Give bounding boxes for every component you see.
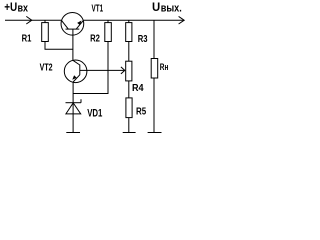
svg-text:VT1: VT1 <box>92 3 104 15</box>
svg-text:вх: вх <box>18 3 29 15</box>
svg-text:R5: R5 <box>136 106 146 118</box>
svg-text:R1: R1 <box>22 32 32 44</box>
svg-text:R4: R4 <box>132 82 144 94</box>
svg-text:Rн: Rн <box>160 62 169 73</box>
svg-text:+U: +U <box>4 0 17 14</box>
svg-text:U: U <box>152 0 160 14</box>
svg-text:R3: R3 <box>138 33 148 45</box>
svg-text:VD1: VD1 <box>87 108 102 120</box>
svg-text:вых.: вых. <box>161 3 182 15</box>
svg-text:VT2: VT2 <box>40 62 53 74</box>
svg-text:R2: R2 <box>90 32 100 44</box>
